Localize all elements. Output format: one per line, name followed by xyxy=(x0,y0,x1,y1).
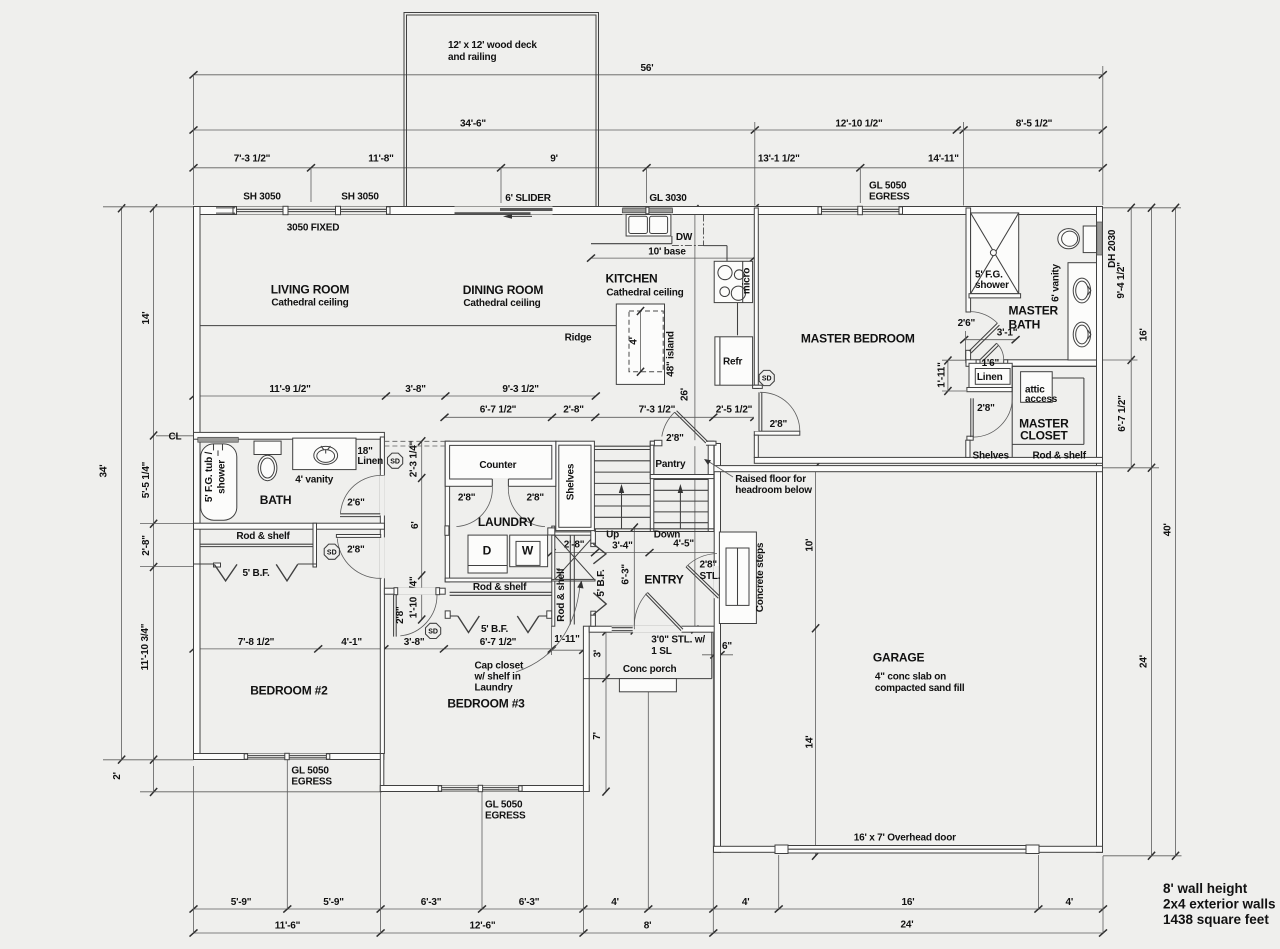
bedroom3 closet bifold doors 5' B.F. xyxy=(458,616,480,633)
kitchen island cabinet xyxy=(616,304,664,384)
linen closet box xyxy=(969,363,1012,387)
left extension lines xyxy=(103,206,194,208)
svg-text:7'-3 1/2": 7'-3 1/2" xyxy=(639,405,676,416)
bedroom3 closet bottom edge xyxy=(445,615,458,617)
svg-text:ENTRY: ENTRY xyxy=(644,572,683,586)
svg-text:6' SLIDER: 6' SLIDER xyxy=(505,193,552,204)
range stove xyxy=(714,261,752,302)
svg-text:1'6": 1'6" xyxy=(982,358,1000,369)
master vanity sink upper xyxy=(1073,278,1090,303)
window GL 5050 EGRESS bedroom3 xyxy=(440,786,521,792)
svg-text:DH 2030: DH 2030 xyxy=(1107,229,1118,268)
smoke detector hall xyxy=(388,453,403,468)
right dimension line 40' xyxy=(1175,208,1177,856)
svg-text:2'8": 2'8" xyxy=(395,606,406,624)
entry closet rod lines xyxy=(569,535,571,624)
tub faucet xyxy=(213,444,215,451)
svg-text:5' F.G.: 5' F.G. xyxy=(975,270,1003,281)
svg-text:EGRESS: EGRESS xyxy=(869,191,910,202)
bedroom3 door jamb caps xyxy=(394,588,398,595)
svg-text:headroom below: headroom below xyxy=(735,485,812,496)
svg-text:Ridge: Ridge xyxy=(565,333,592,344)
svg-text:micro: micro xyxy=(742,268,753,294)
svg-text:BEDROOM #3: BEDROOM #3 xyxy=(447,697,525,711)
window GL 3030 kitchen xyxy=(622,207,672,215)
slider fixed panel xyxy=(500,208,553,211)
svg-text:9'-3 1/2": 9'-3 1/2" xyxy=(502,384,539,395)
svg-text:MASTER: MASTER xyxy=(1009,304,1059,318)
svg-text:shower: shower xyxy=(975,280,1009,291)
hall vertical dims 2'-3 1/4" / 6' / 1'-10 3/4" xyxy=(421,441,423,619)
master closet shelf lines xyxy=(1012,443,1084,445)
svg-text:11'-9 1/2": 11'-9 1/2" xyxy=(269,384,311,395)
entry-garage door swing arc xyxy=(686,554,717,567)
counter edge below stove xyxy=(737,303,739,336)
svg-text:BATH: BATH xyxy=(260,493,292,507)
bath vanity 4' xyxy=(293,438,356,470)
attic access box xyxy=(1021,372,1053,403)
svg-text:4' vanity: 4' vanity xyxy=(295,474,333,485)
svg-text:Rod & shelf: Rod & shelf xyxy=(1033,451,1087,462)
svg-text:34': 34' xyxy=(99,465,110,478)
kitchen / master bedroom wall xyxy=(754,208,758,388)
svg-text:5' B.F.: 5' B.F. xyxy=(242,568,270,579)
svg-text:3'-8": 3'-8" xyxy=(405,384,426,395)
bath tub 5' F.G. xyxy=(201,444,237,520)
svg-text:Rod & shelf: Rod & shelf xyxy=(473,582,527,593)
svg-text:8' wall height: 8' wall height xyxy=(1163,881,1248,896)
front wall step bedroom2/3 xyxy=(380,754,384,792)
svg-text:BEDROOM #2: BEDROOM #2 xyxy=(250,683,328,697)
hall wall below master door xyxy=(754,435,758,457)
svg-text:LIVING ROOM: LIVING ROOM xyxy=(271,283,350,297)
svg-text:1'-11": 1'-11" xyxy=(936,362,947,388)
svg-text:24': 24' xyxy=(901,920,914,931)
entry sidelight 1 SL xyxy=(612,626,633,632)
svg-text:2'8": 2'8" xyxy=(458,493,476,504)
wall below linen xyxy=(967,388,1012,392)
exterior right wall xyxy=(1097,207,1103,853)
laundry counter doorway gap erase xyxy=(492,478,508,487)
svg-text:STL.: STL. xyxy=(700,571,721,582)
svg-text:Cap closet: Cap closet xyxy=(475,661,524,672)
hall west wall (bath/bedroom2 side) xyxy=(380,437,384,754)
svg-text:14'-11": 14'-11" xyxy=(928,153,959,164)
svg-text:6'-7 1/2": 6'-7 1/2" xyxy=(1117,395,1128,432)
door 2'8" STL entry-garage opening xyxy=(714,566,721,598)
bath door leaf xyxy=(340,513,380,515)
svg-text:SD: SD xyxy=(390,458,400,465)
laundry south wall xyxy=(445,578,552,582)
stair treads up run xyxy=(594,449,650,451)
porch step xyxy=(619,679,676,692)
master bath door 2'6" leaf xyxy=(969,323,997,351)
svg-text:Up: Up xyxy=(606,529,619,540)
svg-text:Pantry: Pantry xyxy=(655,459,686,470)
bedroom2 closet bottom edge xyxy=(194,563,215,565)
svg-text:shower: shower xyxy=(217,460,228,494)
smoke detector bedroom2 xyxy=(324,544,339,559)
svg-text:4': 4' xyxy=(742,897,750,908)
right extension lines xyxy=(1099,359,1138,361)
front door 3'0 STL opening xyxy=(633,626,682,633)
svg-text:3': 3' xyxy=(593,650,604,658)
svg-text:6'-7 1/2": 6'-7 1/2" xyxy=(480,405,517,416)
window GL 5050 EGRESS bedroom2 xyxy=(246,754,328,760)
bath tub surround strip xyxy=(198,437,239,442)
svg-text:13'-1 1/2": 13'-1 1/2" xyxy=(758,153,800,164)
laundry double door left arc xyxy=(456,486,492,526)
bedroom3 front wall xyxy=(380,786,589,792)
svg-text:SD: SD xyxy=(327,549,337,556)
front door swing arc xyxy=(634,593,647,630)
entry front wall xyxy=(589,626,720,632)
pantry door leaf xyxy=(675,412,706,443)
kitchen sink xyxy=(626,215,671,237)
cap closet X brace xyxy=(555,535,595,580)
svg-text:7'-8 1/2": 7'-8 1/2" xyxy=(238,637,275,648)
svg-text:Cathedral ceiling: Cathedral ceiling xyxy=(271,298,348,309)
svg-text:6": 6" xyxy=(722,641,732,652)
dimension 10' base kitchen xyxy=(591,257,754,259)
svg-text:2'6": 2'6" xyxy=(347,498,365,509)
svg-text:2'8": 2'8" xyxy=(666,433,684,444)
svg-text:8'-5 1/2": 8'-5 1/2" xyxy=(1016,119,1053,130)
laundry door bottom stubs xyxy=(445,526,449,535)
svg-text:10': 10' xyxy=(804,539,815,552)
svg-text:Raised floor for: Raised floor for xyxy=(735,474,806,485)
left dimension line 14' / 5'-5 1/4" / 2'-8" / 11'-10 3/4" / 2' xyxy=(153,208,155,792)
svg-text:GL 3030: GL 3030 xyxy=(649,193,687,204)
svg-text:2'8": 2'8" xyxy=(526,493,544,504)
stair up arrow xyxy=(621,492,623,529)
svg-text:2'-8": 2'-8" xyxy=(563,405,584,416)
svg-text:6': 6' xyxy=(410,521,421,529)
master bath door swing arc xyxy=(971,312,998,324)
svg-text:KITCHEN: KITCHEN xyxy=(606,272,658,286)
master closet door stub xyxy=(967,436,973,440)
pantry corner stub xyxy=(654,440,662,446)
linen door swing arc xyxy=(997,343,1004,360)
master vanity sink lower xyxy=(1073,322,1090,347)
master bath west wall mid xyxy=(966,350,971,362)
svg-text:4': 4' xyxy=(629,337,640,345)
svg-text:1 SL: 1 SL xyxy=(651,646,671,657)
dimension row 11'-9 1/2" / 3'-8" / 9'-3 1/2" xyxy=(194,395,596,397)
bath door 2'6" opening xyxy=(380,476,385,516)
shelves closet walls xyxy=(556,441,595,530)
linen door 1'6" leaf xyxy=(980,343,997,360)
dishwasher DW dashed outline xyxy=(703,215,705,246)
slider door 6' opening xyxy=(455,207,553,215)
dimension 1'-11" bedroom3 to porch xyxy=(552,649,584,651)
svg-text:6'-7 1/2": 6'-7 1/2" xyxy=(480,637,517,648)
exterior left wall xyxy=(194,207,201,760)
porch slab xyxy=(583,678,711,680)
svg-text:Laundry: Laundry xyxy=(475,683,514,694)
svg-text:12'-6": 12'-6" xyxy=(470,921,496,932)
svg-text:2'-5 1/2": 2'-5 1/2" xyxy=(716,405,753,416)
svg-text:24': 24' xyxy=(1139,655,1150,668)
svg-text:Down: Down xyxy=(654,529,681,540)
stairwell east wall xyxy=(708,441,714,531)
front door leaf xyxy=(648,593,684,630)
svg-text:3050 FIXED: 3050 FIXED xyxy=(287,223,339,234)
svg-text:w/ shelf in: w/ shelf in xyxy=(474,672,521,683)
bedroom3 door leaf xyxy=(393,595,395,637)
svg-text:SH 3050: SH 3050 xyxy=(243,192,281,203)
master toilet xyxy=(1083,226,1096,253)
bedroom2 door 2'8" opening xyxy=(380,537,385,578)
window GL 5050 EGRESS master bedroom xyxy=(820,207,901,215)
svg-text:16' x 7' Overhead door: 16' x 7' Overhead door xyxy=(854,832,956,843)
svg-text:1438 square feet: 1438 square feet xyxy=(1163,912,1269,927)
smoke detector bedroom3 xyxy=(426,623,441,638)
pantry south wall xyxy=(650,475,714,479)
entry closet bifold doors 5' B.F. vertical xyxy=(593,544,606,564)
svg-text:4': 4' xyxy=(1066,897,1074,908)
pantry north opening erase xyxy=(662,440,707,446)
svg-text:5' B.F.: 5' B.F. xyxy=(481,624,509,635)
svg-text:5' F.G. tub /: 5' F.G. tub / xyxy=(204,451,215,502)
laundry west wall xyxy=(445,441,449,582)
bedroom2 door swing arc xyxy=(337,538,381,578)
svg-text:and railing: and railing xyxy=(448,52,496,63)
svg-text:2'8": 2'8" xyxy=(770,419,788,430)
entry-garage door leaf xyxy=(686,567,718,598)
svg-text:CL: CL xyxy=(169,432,182,443)
dimension line 56' overall top xyxy=(194,74,1103,76)
stair landing edge xyxy=(594,528,714,530)
svg-text:Counter: Counter xyxy=(479,460,516,471)
svg-text:4'-1": 4'-1" xyxy=(341,637,362,648)
svg-text:DW: DW xyxy=(676,232,693,243)
dimension row 6'-7 1/2" / 2'-8" / 7'-3 1/2" / 2'-5 1/2" xyxy=(445,416,755,418)
smoke detector master bedroom xyxy=(759,370,774,385)
svg-text:Conc porch: Conc porch xyxy=(623,664,677,675)
window DH 2030 right wall xyxy=(1097,222,1102,255)
dimension 1'-11" linen closet xyxy=(947,361,949,392)
svg-text:Rod & shelf: Rod & shelf xyxy=(236,531,290,542)
bedroom3 closet rod lines xyxy=(450,591,552,593)
dimension 6'-3" entry vertical xyxy=(633,527,635,632)
svg-text:9': 9' xyxy=(550,154,558,165)
svg-text:6'-3": 6'-3" xyxy=(421,897,442,908)
master bedroom door jamb xyxy=(754,385,758,388)
svg-text:4" conc slab on: 4" conc slab on xyxy=(875,672,946,683)
raised floor leader arrow xyxy=(707,461,733,478)
svg-text:W: W xyxy=(522,544,534,558)
svg-text:2'-8": 2'-8" xyxy=(141,535,152,556)
svg-text:2x4 exterior walls: 2x4 exterior walls xyxy=(1163,897,1276,912)
svg-text:Linen: Linen xyxy=(357,456,383,467)
master bedroom door leaf xyxy=(758,392,760,431)
pantry west wall xyxy=(650,441,654,478)
svg-text:3'-8": 3'-8" xyxy=(404,637,425,648)
shower master 5' F.G. xyxy=(971,213,1019,294)
svg-text:16': 16' xyxy=(1138,328,1149,341)
master closet west line xyxy=(1011,366,1013,457)
bedroom3 door swing arc xyxy=(400,595,437,636)
slider moving panel xyxy=(455,212,531,214)
svg-text:48" island: 48" island xyxy=(666,331,677,377)
dimension line 7'-3 1/2" / 11'-8" / 9' / 13'-1 1/2" / 14'-11" xyxy=(194,167,1103,169)
master closet west wall xyxy=(966,440,970,457)
entry closet east wall xyxy=(591,529,596,543)
svg-text:SD: SD xyxy=(428,629,438,636)
svg-text:2'8": 2'8" xyxy=(700,560,718,571)
linen door opening erase xyxy=(977,359,1008,367)
dimension 3'-1" master bath door xyxy=(964,339,1015,341)
window SH 3050 pair and 3050 FIXED glazing xyxy=(235,207,388,215)
right dimension line 9'-4 1/2" / 6'-7 1/2" xyxy=(1130,208,1132,468)
kitchen counter corner xyxy=(704,245,728,247)
svg-text:6'-3": 6'-3" xyxy=(519,897,540,908)
svg-text:8': 8' xyxy=(644,921,652,932)
kitchen sink counter edge xyxy=(591,243,672,245)
svg-text:Shelves: Shelves xyxy=(566,463,577,500)
svg-text:3'0" STL. w/: 3'0" STL. w/ xyxy=(651,635,705,646)
svg-text:5'-9": 5'-9" xyxy=(231,897,252,908)
svg-text:5'-9": 5'-9" xyxy=(323,897,344,908)
master bath south wall xyxy=(966,360,1097,367)
svg-text:Cathedral ceiling: Cathedral ceiling xyxy=(606,288,683,299)
svg-text:12' x 12' wood deck: 12' x 12' wood deck xyxy=(448,40,537,51)
dimension 26' vertical hall xyxy=(694,208,696,632)
bedroom2 front wall xyxy=(194,754,384,760)
refrigerator xyxy=(715,337,753,385)
svg-text:MASTER BEDROOM: MASTER BEDROOM xyxy=(801,332,915,346)
master vanity 6' xyxy=(1068,263,1097,360)
pantry door swing arc xyxy=(662,412,675,436)
svg-text:EGRESS: EGRESS xyxy=(485,811,526,822)
cap closet west wall xyxy=(552,526,555,626)
svg-text:3'-4": 3'-4" xyxy=(612,541,633,552)
svg-text:16': 16' xyxy=(902,897,915,908)
bath south wall xyxy=(194,523,385,529)
svg-text:40': 40' xyxy=(1162,523,1173,536)
dimension line 34'-6" / 12'-10 1/2" / 8'-5 1/2" xyxy=(194,129,1103,131)
bottom dimension row 5'-9" 5'-9" 6'-3" 6'-3" 4' | 4' 16' 4' xyxy=(194,908,1104,910)
concrete steps garage xyxy=(719,532,756,624)
bath door swing arc xyxy=(341,475,384,513)
svg-text:SH 3050: SH 3050 xyxy=(341,192,379,203)
bath linen cabinet 18" xyxy=(355,438,357,470)
svg-text:2'8": 2'8" xyxy=(347,544,365,555)
master suite south wall xyxy=(754,457,1102,463)
cap closet top wall xyxy=(552,532,595,535)
bedroom3 east wall / porch side xyxy=(583,626,589,791)
stairwell top edge xyxy=(594,445,650,447)
svg-text:7'-3 1/2": 7'-3 1/2" xyxy=(234,154,271,165)
svg-text:CLOSET: CLOSET xyxy=(1020,429,1068,443)
svg-text:6' vanity: 6' vanity xyxy=(1051,263,1062,301)
dimension row 2'-8" / 3'-4" / 4'-5" at stairs xyxy=(552,552,721,554)
master closet door 2'8" leaf xyxy=(970,398,972,437)
svg-text:access: access xyxy=(1025,394,1058,405)
kitchen island counter dashed xyxy=(629,311,663,372)
svg-text:26': 26' xyxy=(679,388,690,401)
svg-text:Rod & shelf: Rod & shelf xyxy=(556,567,567,621)
svg-text:34'-6": 34'-6" xyxy=(460,119,486,130)
slider direction arrow xyxy=(512,215,532,217)
svg-text:Cathedral ceiling: Cathedral ceiling xyxy=(463,298,540,309)
svg-text:GARAGE: GARAGE xyxy=(873,651,925,665)
ridge line xyxy=(200,325,617,327)
master closet door swing arc xyxy=(973,398,1012,437)
laundry counter xyxy=(445,441,556,486)
svg-text:6'-3": 6'-3" xyxy=(621,564,632,585)
svg-text:Refr: Refr xyxy=(723,357,743,368)
bedroom2 closet rod and shelf lines xyxy=(200,543,314,545)
overhead garage door opening xyxy=(775,845,1039,853)
svg-text:Linen: Linen xyxy=(977,372,1003,383)
bath toilet xyxy=(254,441,281,454)
laundry double door right arc xyxy=(508,486,545,526)
bedroom2 door leaf xyxy=(336,535,380,538)
dimension row 7'-8 1/2" / 4'-1" / 3'-8" / 6'-7 1/2" bedrooms xyxy=(194,648,552,650)
svg-text:11'-8": 11'-8" xyxy=(368,154,394,165)
master bedroom door swing arc xyxy=(760,392,800,431)
stair down arrow xyxy=(679,492,681,529)
svg-text:2'8": 2'8" xyxy=(977,403,995,414)
dimension 6" entry wall xyxy=(702,654,733,656)
dimension 4' island xyxy=(640,311,642,372)
garage west wall xyxy=(714,444,720,853)
hall ceiling break dashed lines xyxy=(384,440,445,442)
cap closet bottom edge xyxy=(552,579,595,581)
bath north wall xyxy=(194,432,385,439)
svg-text:compacted sand fill: compacted sand fill xyxy=(875,683,965,694)
linen door jambs xyxy=(976,360,980,364)
svg-text:7': 7' xyxy=(592,732,603,740)
master bedroom door header wall xyxy=(754,431,800,435)
svg-text:LAUNDRY: LAUNDRY xyxy=(478,515,535,529)
bedroom2 closet east wall xyxy=(313,523,317,567)
bedroom3 north wall xyxy=(384,588,445,594)
dimension 10' / 14' garage vertical xyxy=(815,467,817,856)
svg-text:BATH: BATH xyxy=(1009,318,1041,332)
svg-text:EGRESS: EGRESS xyxy=(291,777,332,788)
svg-text:GL 5050: GL 5050 xyxy=(485,800,523,811)
left dimension line 34' overall xyxy=(121,208,123,759)
svg-text:2': 2' xyxy=(112,772,123,780)
extension lines top dims xyxy=(193,75,195,205)
svg-text:GL 5050: GL 5050 xyxy=(869,181,907,192)
svg-text:5'-5 1/4": 5'-5 1/4" xyxy=(141,461,152,498)
wood deck outline xyxy=(404,13,599,207)
overhead garage door panel xyxy=(775,846,1039,854)
laundry counter gap edges xyxy=(491,479,493,486)
pantry north wall xyxy=(650,441,716,445)
svg-text:DINING ROOM: DINING ROOM xyxy=(463,283,544,297)
bottom extension lines xyxy=(193,766,195,933)
svg-text:GL 5050: GL 5050 xyxy=(291,766,329,777)
right extension line at top wall xyxy=(1103,207,1181,209)
svg-text:1'-10 3/4": 1'-10 3/4" xyxy=(409,576,420,618)
bedroom2 closet bifold doors 5' B.F. xyxy=(214,564,237,581)
svg-text:5' B.F.: 5' B.F. xyxy=(596,569,607,597)
garage front wall xyxy=(714,846,1103,852)
svg-text:10' base: 10' base xyxy=(648,247,686,258)
stair treads down run xyxy=(654,479,708,481)
stairwell divider wall xyxy=(650,443,654,532)
master bedroom door 2'8" opening xyxy=(754,388,759,431)
svg-text:14': 14' xyxy=(141,312,152,325)
svg-text:D: D xyxy=(483,544,492,558)
svg-text:11'-10 3/4": 11'-10 3/4" xyxy=(140,623,151,670)
master bath west wall upper xyxy=(966,208,971,312)
